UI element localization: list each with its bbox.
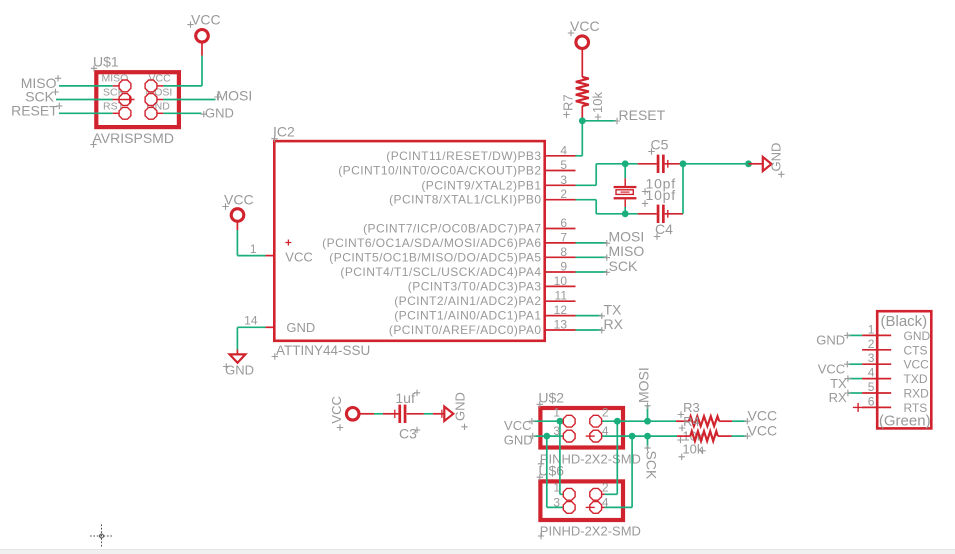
U$6 pad 2: [590, 488, 602, 500]
svg-text:GND: GND: [769, 143, 784, 172]
svg-text:3: 3: [868, 351, 875, 365]
wire IC2 PB0 to resonator bottom node: [576, 200, 626, 214]
svg-text:(PCINT6/OC1A/SDA/MOSI/ADC6)PA6: (PCINT6/OC1A/SDA/MOSI/ADC6)PA6: [322, 236, 541, 250]
svg-text:8: 8: [560, 245, 567, 259]
connector U$1 AVRISPSMD box: [96, 72, 179, 127]
U$1 pad GND: [145, 107, 157, 119]
svg-text:RX: RX: [604, 316, 624, 332]
net label VCC at U$2: [504, 418, 535, 433]
wire U$2 pad4 to U$6 pad4: [602, 436, 632, 507]
IC2 pin 4 stub: [546, 143, 576, 157]
svg-text:4: 4: [868, 366, 875, 380]
IC2 pin 1 label VCC: [285, 240, 312, 265]
U$6 pin numbers: [553, 481, 609, 510]
U$6 value label PINHD-2X2-SMD: [538, 524, 641, 540]
supply symbol VCC above R7: [568, 18, 600, 49]
net label MISO: [604, 243, 645, 261]
IC2 pin 5 stub: [546, 158, 576, 172]
IC2 pin 14 stub GND: [244, 314, 275, 328]
IC2 pin 6 stub: [546, 216, 576, 230]
svg-text:VCC: VCC: [504, 418, 531, 433]
wire IC2 PA5 to MISO label: [576, 256, 608, 258]
U$1 origin cross: [113, 95, 135, 103]
wire TX label to FTDI pin 4: [848, 378, 862, 380]
net label GND at U$2: [504, 433, 536, 448]
svg-text:GND: GND: [205, 105, 234, 120]
svg-text:RESET: RESET: [11, 103, 58, 119]
U$2 name label: [537, 390, 565, 408]
net label SCK: [604, 258, 638, 276]
svg-text:MOSI: MOSI: [217, 88, 253, 104]
wire VCC symbol to IC2 pin 1: [237, 222, 265, 256]
svg-text:RX: RX: [829, 390, 847, 405]
wire U$2 pad4 row to R4: [602, 435, 677, 437]
U$1 pad MOSI: [145, 94, 157, 106]
svg-text:(PCINT0/AREF/ADC0)PA0: (PCINT0/AREF/ADC0)PA0: [389, 323, 542, 337]
wire IC2 PA4 to SCK label: [576, 271, 608, 273]
junction node top of resonator: [622, 160, 629, 167]
svg-text:2: 2: [602, 481, 609, 495]
wire IC2 pin 14 to GND: [237, 327, 265, 354]
svg-text:4: 4: [602, 424, 609, 438]
wire MISO to U$1: [59, 85, 119, 87]
wire GND label to FTDI pin 1: [848, 334, 862, 336]
svg-text:10: 10: [554, 274, 568, 288]
U$6 pad 1: [563, 488, 575, 500]
net label RESET: [11, 103, 62, 119]
svg-text:C4: C4: [655, 221, 673, 237]
svg-text:GND: GND: [904, 329, 931, 343]
net label TX at FTDI: [830, 375, 851, 390]
IC2 pin 8 stub: [546, 245, 576, 259]
wire MOSI label stub: [647, 405, 649, 421]
svg-text:C3: C3: [399, 425, 417, 441]
IC2 pin 10 stub: [546, 274, 576, 288]
svg-text:RXD: RXD: [904, 387, 930, 401]
svg-text:1: 1: [868, 322, 875, 336]
FTDI pin 2 stub: [862, 337, 891, 351]
svg-text:(PCINT9/XTAL2)PB1: (PCINT9/XTAL2)PB1: [421, 178, 541, 192]
svg-text:(PCINT1/AIN0/ADC1)PA1: (PCINT1/AIN0/ADC1)PA1: [394, 309, 541, 323]
svg-text:VCC: VCC: [191, 11, 221, 27]
junction MOSI node: [644, 418, 651, 425]
svg-text:6: 6: [868, 394, 875, 408]
C5 value label 10pf: [642, 175, 676, 194]
connector FTDI header box: [877, 311, 931, 428]
IC2 pin 12 stub: [546, 303, 576, 317]
origin crosshair: [90, 525, 113, 549]
net label TX: [599, 301, 622, 319]
svg-text:ATTINY44-SSU: ATTINY44-SSU: [276, 343, 370, 358]
svg-text:6: 6: [560, 216, 567, 230]
C5 name label: [648, 137, 668, 155]
ground symbol right of C3: [438, 392, 468, 430]
U$6 pad 4: [590, 502, 602, 514]
svg-text:1: 1: [553, 406, 560, 420]
svg-text:SCK: SCK: [609, 258, 638, 274]
svg-text:U$1: U$1: [93, 54, 119, 70]
resistor R4: [677, 431, 732, 441]
svg-text:7: 7: [560, 230, 567, 244]
svg-text:VCC: VCC: [904, 358, 930, 372]
junction SCK node: [644, 433, 651, 440]
FTDI pin 3 stub: [862, 351, 891, 365]
FTDI pin 6 stub: [862, 394, 891, 408]
IC2 pin 2 stub: [546, 187, 576, 201]
junction U$2 pad4: [629, 433, 636, 440]
wire IC2 PB1 to resonator top node: [576, 164, 626, 186]
svg-text:C5: C5: [651, 137, 669, 153]
svg-text:R7: R7: [561, 94, 576, 111]
wire RESET to U$1: [59, 112, 119, 114]
U$1 value label AVRISPSMD: [90, 130, 174, 148]
junction caps right node: [680, 160, 687, 167]
connector U$2 PINHD-2X2-SMD box: [540, 408, 623, 448]
wire RX label to FTDI pin 5: [848, 392, 862, 394]
svg-text:AVRISPSMD: AVRISPSMD: [93, 130, 174, 146]
junction RESET node: [579, 117, 586, 124]
IC2 pin 11 stub: [546, 289, 576, 303]
IC2 pin 9 stub: [546, 260, 576, 274]
resonator Q1: [614, 164, 637, 214]
wire U$2 pad1 to U$6 pad1: [560, 421, 563, 494]
U$6 name label: [537, 462, 565, 480]
net label MOSI: [604, 229, 645, 247]
wire U$2 pad3 node to U$6 pad3: [547, 436, 563, 507]
svg-text:GND: GND: [225, 363, 254, 378]
svg-text:2: 2: [560, 187, 567, 201]
resistor R7: [576, 49, 589, 119]
svg-text:(PCINT3/T0/ADC3)PA3: (PCINT3/T0/ADC3)PA3: [408, 279, 542, 293]
svg-text:R4: R4: [683, 414, 700, 429]
svg-text:GND: GND: [453, 392, 468, 421]
R4 value label 10k: [679, 442, 704, 460]
FTDI pin 5 stub: [862, 380, 891, 394]
IC2 pin 3 stub: [546, 173, 576, 187]
U$2 origin cross: [586, 435, 595, 437]
svg-text:1: 1: [553, 481, 560, 495]
svg-text:VCC: VCC: [748, 423, 778, 439]
wire U$1 GND pin to label: [157, 112, 201, 114]
svg-text:GND: GND: [286, 320, 315, 335]
IC2 value label ATTINY44-SSU: [272, 343, 371, 360]
IC2 name label: [271, 124, 295, 142]
wire VCC label to FTDI pin 3: [848, 363, 862, 365]
svg-text:VCC: VCC: [818, 361, 845, 376]
svg-text:3: 3: [560, 173, 567, 187]
C4 name label: [654, 221, 673, 240]
U$1 pad RST: [119, 107, 131, 119]
svg-text:10pf: 10pf: [646, 187, 676, 203]
R3 name label: [678, 400, 700, 418]
svg-text:13: 13: [554, 318, 568, 332]
svg-text:1uf: 1uf: [395, 390, 415, 406]
wire SCK label stub: [647, 436, 649, 449]
net label MOSI right of U$1: [214, 88, 252, 104]
U$6 origin cross: [586, 506, 595, 508]
svg-text:(PCINT4/T1/SCL/USCK/ADC4)PA4: (PCINT4/T1/SCL/USCK/ADC4)PA4: [340, 265, 541, 279]
supply symbol VCC above U$1: [187, 11, 220, 42]
U$2 pad 2: [590, 415, 602, 427]
C3 name label: [399, 425, 420, 441]
capacitor C5: [625, 155, 683, 173]
wire IC2 PA1 to TX label: [576, 315, 603, 317]
U$2 pad 3: [563, 430, 575, 442]
wire R3 to VCC label: [732, 420, 746, 422]
svg-text:PINHD-2X2-SMD: PINHD-2X2-SMD: [540, 524, 641, 539]
svg-text:11: 11: [555, 289, 568, 303]
svg-text:3: 3: [553, 424, 560, 438]
svg-text:(PCINT10/INT0/OC0A/CKOUT)PB2: (PCINT10/INT0/OC0A/CKOUT)PB2: [338, 164, 541, 178]
ground symbol below pin 14: [223, 354, 254, 377]
svg-text:(PCINT8/XTAL1/CLKI)PB0: (PCINT8/XTAL1/CLKI)PB0: [389, 193, 541, 207]
svg-text:9: 9: [560, 260, 567, 274]
svg-text:(PCINT7/ICP/OC0B/ADC7)PA7: (PCINT7/ICP/OC0B/ADC7)PA7: [363, 222, 541, 236]
svg-text:RTS: RTS: [904, 401, 928, 415]
svg-text:VCC: VCC: [570, 18, 600, 34]
capacitor C3: [359, 405, 444, 423]
svg-text:(PCINT2/AIN1/ADC2)PA2: (PCINT2/AIN1/ADC2)PA2: [394, 294, 541, 308]
wire RESET net: [576, 118, 617, 156]
ground symbol right of C5: [749, 143, 785, 178]
IC2 pin 1 stub VCC: [250, 242, 276, 256]
svg-text:5: 5: [868, 380, 875, 394]
IC2 pin 7 stub: [546, 230, 576, 244]
wire IC2 PA0 to RX label: [576, 329, 603, 331]
svg-text:VCC: VCC: [285, 250, 312, 265]
junction at GND lead: [745, 160, 752, 167]
svg-text:(PCINT11/RESET/DW)PB3: (PCINT11/RESET/DW)PB3: [386, 149, 541, 163]
svg-text:IC2: IC2: [273, 124, 295, 140]
horizontal scrollbar strip: [0, 549, 955, 554]
junction node bottom of resonator: [622, 210, 629, 217]
svg-text:VCC: VCC: [329, 396, 344, 423]
svg-text:(PCINT5/OC1B/MISO/DO/ADC5)PA5: (PCINT5/OC1B/MISO/DO/ADC5)PA5: [329, 250, 541, 264]
resistor R3: [676, 416, 732, 426]
wire R4 to VCC label: [732, 435, 747, 437]
capacitor C4: [625, 205, 683, 223]
U$2 pad 4: [590, 430, 602, 442]
wire VCC label to U$2 pad 1: [533, 420, 563, 422]
supply symbol VCC at pin 1: [222, 191, 253, 221]
svg-text:VCC: VCC: [748, 408, 778, 424]
net label GND right of U$1: [201, 105, 234, 120]
FTDI origin cross at RTS: [853, 403, 865, 412]
wire U$1 VCC pin to VCC symbol: [157, 43, 202, 86]
svg-text:MISO: MISO: [609, 243, 645, 259]
wire resonator right side to GND: [683, 164, 749, 214]
svg-text:RESET: RESET: [619, 107, 666, 123]
svg-text:10k: 10k: [590, 92, 605, 113]
svg-text:SCK: SCK: [643, 451, 659, 480]
svg-text:R3: R3: [683, 400, 700, 415]
svg-text:MOSI: MOSI: [636, 367, 652, 403]
U$1 pad VCC: [145, 80, 157, 92]
U$2 pad 1: [563, 415, 575, 427]
wire SCK to U$1: [56, 99, 113, 101]
net label MISO: [21, 75, 61, 91]
stray mark near 10k: [699, 448, 705, 454]
net label RX: [599, 316, 624, 334]
junction U$2 pad2: [614, 418, 621, 425]
svg-text:14: 14: [244, 314, 258, 328]
svg-text:3: 3: [553, 495, 560, 509]
svg-text:TXD: TXD: [904, 372, 928, 386]
ic IC2 ATTINY44-SSU box: [274, 141, 544, 341]
U$1 pad SCK: [119, 94, 131, 106]
FTDI pin 1 stub: [862, 322, 891, 336]
net label RX at FTDI: [829, 390, 851, 405]
U$2 pin numbers: [553, 406, 609, 438]
svg-text:1: 1: [250, 242, 257, 256]
U$6 pad 3: [563, 502, 575, 514]
svg-text:U$2: U$2: [538, 390, 564, 406]
connector U$6 PINHD-2X2-SMD box: [540, 481, 623, 520]
svg-text:4: 4: [560, 143, 567, 157]
svg-text:CTS: CTS: [904, 343, 928, 357]
R4 name label: [679, 414, 700, 431]
C4 value label 10pf: [642, 187, 676, 207]
U$1 pad MISO: [119, 80, 131, 92]
wire IC2 PA6 to MOSI label: [576, 242, 608, 244]
net label VCC right of R3: [744, 408, 777, 425]
svg-text:2: 2: [868, 337, 875, 351]
U$1 name label: [91, 54, 119, 72]
wire U$1 MOSI pin to label: [157, 99, 215, 101]
svg-text:2: 2: [602, 406, 609, 420]
svg-text:10k: 10k: [682, 442, 703, 457]
net label VCC right of R4: [744, 423, 777, 440]
net label GND at FTDI: [816, 332, 850, 347]
svg-text:GND: GND: [816, 333, 845, 348]
R7 name label: [561, 94, 576, 117]
R3 value label 10k: [677, 428, 704, 443]
U$2 value label PINHD-2X2-SMD: [538, 451, 641, 467]
net label MOSI rotated: [636, 367, 652, 409]
R7 value label 10k: [590, 92, 605, 121]
svg-text:(Black): (Black): [881, 313, 928, 330]
wire U$2 pad2 to MOSI node: [602, 420, 676, 422]
supply symbol VCC left of C3: [329, 396, 359, 431]
svg-text:VCC: VCC: [224, 191, 254, 207]
wire GND label to U$2 pad 3: [534, 435, 563, 437]
IC2 pin 13 stub: [546, 318, 576, 332]
svg-text:TX: TX: [830, 376, 847, 391]
wire U$2 pad2 to U$6 pad2: [602, 421, 617, 494]
C3 value label 1uf: [395, 390, 420, 406]
junction U$2 pad3: [543, 433, 550, 440]
net label SCK: [25, 88, 58, 104]
svg-text:5: 5: [560, 158, 567, 172]
net label VCC at FTDI: [818, 361, 851, 376]
svg-text:4: 4: [602, 495, 609, 509]
net label RESET: [614, 107, 666, 124]
FTDI pin 4 stub: [862, 366, 891, 380]
svg-text:12: 12: [554, 303, 568, 317]
net label SCK rotated: [643, 445, 659, 480]
svg-text:GND: GND: [504, 433, 533, 448]
junction U$2 pad1: [557, 418, 564, 425]
